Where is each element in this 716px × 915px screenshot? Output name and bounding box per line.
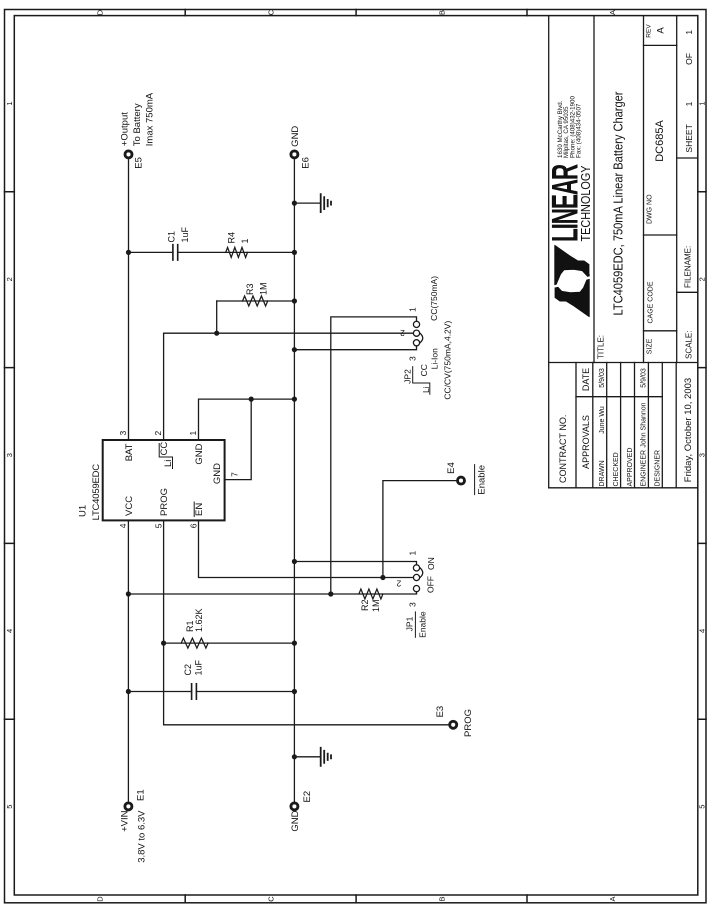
ground right (321, 194, 331, 212)
node R1/GND (292, 641, 297, 646)
svg-text:GND: GND (290, 810, 301, 831)
svg-text:SCALE:: SCALE: (685, 331, 694, 359)
capacitor C2 (192, 684, 197, 699)
svg-text:LTC4059EDC, 750mA Linear Batte: LTC4059EDC, 750mA Linear Battery Charger (611, 91, 626, 316)
border zone numbers top (5, 101, 14, 808)
wire R3 branch (217, 300, 295, 302)
wire E4 branch (383, 481, 457, 578)
terminal E4 (458, 477, 465, 484)
terminal E2 (291, 803, 298, 810)
svg-text:Friday, October 10, 2003: Friday, October 10, 2003 (683, 378, 694, 482)
svg-text:DWG NO: DWG NO (647, 194, 654, 224)
svg-text:D: D (96, 9, 105, 15)
svg-text:DESIGNER: DESIGNER (655, 450, 662, 487)
svg-text:DRAWN: DRAWN (599, 460, 606, 486)
svg-text:Li-Ion: Li-Ion (430, 348, 440, 370)
svg-text:6: 6 (188, 523, 198, 528)
svg-text:1: 1 (240, 238, 250, 243)
svg-text:SIZE: SIZE (647, 338, 654, 354)
terminal E1 (125, 803, 132, 810)
border zone letters right (96, 9, 618, 15)
svg-text:+Output: +Output (120, 112, 131, 146)
svg-text:TITLE:: TITLE: (597, 335, 606, 359)
svg-text:OFF: OFF (426, 576, 436, 593)
jumper JP2 (413, 321, 422, 346)
svg-text:2: 2 (153, 431, 163, 436)
svg-text:1.62K: 1.62K (194, 608, 204, 632)
wire PROG net U1 pin5 to corner to E3 (164, 520, 449, 724)
svg-text:CONTRACT NO.: CONTRACT NO. (558, 415, 568, 483)
wire GND rail E2 to E6 (293, 159, 295, 801)
svg-text:E4: E4 (446, 462, 457, 474)
svg-text:OF: OF (684, 53, 694, 65)
svg-text:CAGE CODE: CAGE CODE (648, 281, 655, 323)
node pin7/pin1 (249, 396, 254, 401)
svg-text:LTC4059EDC: LTC4059EDC (91, 464, 102, 521)
wire Li/CC net U1 pin2 to JP2 pin2 (164, 333, 413, 440)
svg-text:1M: 1M (259, 282, 269, 295)
svg-text:SHEET: SHEET (684, 124, 694, 152)
TITLE BLOCK (549, 16, 698, 488)
wire U1 pin7 GND (225, 399, 252, 480)
svg-text:U1: U1 (78, 505, 89, 517)
svg-text:R3: R3 (245, 283, 255, 295)
svg-text:A: A (656, 27, 667, 34)
node gnd-left (292, 754, 297, 759)
svg-text:E5: E5 (134, 157, 145, 169)
resistor R1 (181, 638, 208, 648)
svg-text:GND: GND (194, 443, 205, 464)
svg-text:CC/CV(750mA,4.2V): CC/CV(750mA,4.2V) (443, 321, 453, 400)
svg-text:3: 3 (408, 356, 418, 361)
svg-text:R4: R4 (227, 232, 237, 244)
U1 pin labels (124, 443, 223, 516)
svg-text:1: 1 (684, 30, 694, 35)
svg-text:4: 4 (118, 523, 128, 528)
svg-text:R2: R2 (360, 600, 370, 612)
E4 Enable overline (474, 465, 476, 495)
node R2/CC (328, 591, 333, 596)
node C1/BAT (126, 250, 131, 255)
wire ground stub left (294, 756, 320, 758)
svg-text:3: 3 (5, 453, 14, 457)
capacitor C1 (173, 245, 178, 260)
node JP2pin3/GND (292, 347, 297, 352)
svg-text:5: 5 (153, 523, 163, 528)
svg-text:E6: E6 (301, 157, 312, 169)
svg-text:Enable: Enable (417, 611, 427, 638)
svg-text:JP2: JP2 (403, 369, 413, 384)
svg-text:A: A (608, 896, 617, 901)
node ON/GND (292, 559, 297, 564)
node R1/PROG (161, 641, 166, 646)
node E4/EN (380, 575, 385, 580)
svg-text:DC685A: DC685A (654, 120, 666, 162)
resistor R3 (243, 296, 268, 306)
wire BAT rail U1 pin3 to E5 (128, 159, 130, 440)
svg-text:3: 3 (698, 453, 707, 457)
ground left (321, 748, 331, 766)
svg-text:To Battery: To Battery (132, 103, 143, 146)
svg-text:1: 1 (188, 431, 198, 436)
svg-text:A: A (608, 10, 617, 15)
svg-text:PROG: PROG (159, 488, 170, 516)
node C2/GND (292, 689, 297, 694)
wire R3 jog (216, 301, 218, 333)
terminal E5 (125, 151, 132, 158)
svg-text:Enable: Enable (476, 465, 487, 495)
border zone letters left (96, 896, 618, 902)
svg-text:3: 3 (118, 431, 128, 436)
node gnd-right (292, 200, 297, 205)
svg-text:1: 1 (408, 551, 418, 556)
node VCCdrop (126, 591, 131, 596)
svg-text:C1: C1 (167, 231, 177, 243)
wire VCC rail E1 to U1 pin4 (127, 520, 129, 801)
svg-text:B: B (438, 896, 447, 901)
svg-text:REV: REV (646, 24, 653, 38)
svg-text:1uF: 1uF (180, 226, 190, 242)
svg-text:Fax: (408)434-0507: Fax: (408)434-0507 (576, 103, 583, 158)
svg-text:APPROVALS: APPROVALS (581, 415, 591, 469)
svg-text:DATE: DATE (581, 368, 591, 391)
svg-text:4: 4 (698, 629, 707, 633)
resistor R4 (226, 247, 248, 257)
wire C1 R4 branch (129, 251, 295, 253)
svg-text:CC: CC (419, 364, 429, 376)
wire R1 branch (164, 642, 295, 644)
U1 pin numbers (118, 431, 239, 529)
junction dots (126, 200, 386, 759)
SCHEMATIC WIRES (128, 159, 456, 801)
svg-text:CC(750mA): CC(750mA) (429, 276, 439, 321)
svg-text:1M: 1M (371, 600, 381, 613)
terminal E3 (450, 721, 457, 728)
svg-text:TECHNOLOGY: TECHNOLOGY (579, 165, 593, 242)
svg-text:2: 2 (5, 277, 14, 281)
terminal E6 (291, 151, 298, 158)
svg-text:1: 1 (5, 101, 14, 105)
svg-text:2: 2 (396, 578, 401, 588)
svg-text:C: C (267, 9, 276, 15)
svg-text:June Wu: June Wu (599, 406, 606, 434)
svg-text:VCC: VCC (124, 496, 135, 516)
svg-text:5: 5 (698, 805, 707, 809)
wire ground stub right (294, 202, 320, 204)
resistor R2 (359, 589, 383, 599)
logo address (557, 96, 583, 158)
svg-text:EN: EN (194, 503, 205, 516)
svg-text:B: B (438, 10, 447, 15)
svg-text:1: 1 (698, 101, 707, 105)
svg-text:ENGINEER: ENGINEER (641, 450, 648, 487)
wire CC select (331, 317, 417, 594)
svg-text:2: 2 (400, 328, 405, 338)
svg-text:+VIN: +VIN (119, 810, 130, 832)
svg-text:5/9/03: 5/9/03 (599, 368, 606, 388)
node R3/GND (292, 298, 297, 303)
wire ON feed GND to JP1 pin1 (294, 562, 416, 565)
svg-text:ON: ON (426, 557, 436, 570)
wire C2 branch (128, 691, 294, 693)
logo LT glyph (553, 245, 592, 316)
svg-text:C: C (267, 896, 276, 902)
svg-text:3.8V to 6.3V: 3.8V to 6.3V (136, 810, 147, 863)
EN overline (193, 502, 195, 517)
svg-text:APPROVED: APPROVED (627, 448, 634, 487)
svg-text:E3: E3 (435, 706, 446, 718)
svg-text:GND: GND (290, 126, 301, 147)
node R4/GND (292, 250, 297, 255)
border zone ticks (5, 192, 15, 719)
IC U1 box (103, 440, 225, 520)
U1 pin2 Li/CC label (159, 442, 174, 467)
svg-text:JP1: JP1 (405, 616, 415, 631)
node C2/VCC (126, 689, 131, 694)
svg-text:E1: E1 (136, 789, 147, 801)
JP1 overline (414, 612, 416, 637)
svg-text:FILENAME:: FILENAME: (684, 246, 693, 288)
svg-text:CHECKED: CHECKED (613, 452, 620, 486)
svg-text:BAT: BAT (124, 443, 135, 461)
svg-text:C2: C2 (183, 664, 193, 676)
svg-text:3: 3 (408, 602, 418, 607)
wire EN net U1 pin6 to JP1 pin2 (199, 520, 413, 577)
svg-text:E2: E2 (302, 791, 313, 803)
svg-text:1: 1 (684, 101, 694, 106)
border zone numbers bottom (698, 101, 707, 808)
svg-text:D: D (96, 896, 105, 902)
wire VCC drop to R2 to JP1 pin3 (128, 592, 416, 594)
wire JP2 pin3 feed (294, 346, 416, 350)
svg-text:1: 1 (408, 307, 418, 312)
svg-text:PROG: PROG (463, 709, 474, 737)
svg-text:2: 2 (698, 277, 707, 281)
JP2 Li/CC step label (419, 364, 431, 393)
jumper JP1 (413, 565, 422, 592)
svg-text:5: 5 (5, 805, 14, 809)
node pin1net/GND (292, 396, 297, 401)
node R3/LiCC (214, 331, 219, 336)
svg-text:GND: GND (212, 463, 223, 484)
svg-text:5/9/03: 5/9/03 (641, 368, 648, 388)
svg-text:Imax 750mA: Imax 750mA (144, 92, 155, 146)
wire U1 pin1 GND (199, 399, 295, 440)
svg-text:7: 7 (230, 472, 240, 477)
svg-text:John Shannon: John Shannon (641, 402, 648, 447)
svg-text:CC: CC (159, 442, 170, 456)
svg-text:4: 4 (5, 629, 14, 633)
svg-text:1uF: 1uF (193, 659, 203, 675)
